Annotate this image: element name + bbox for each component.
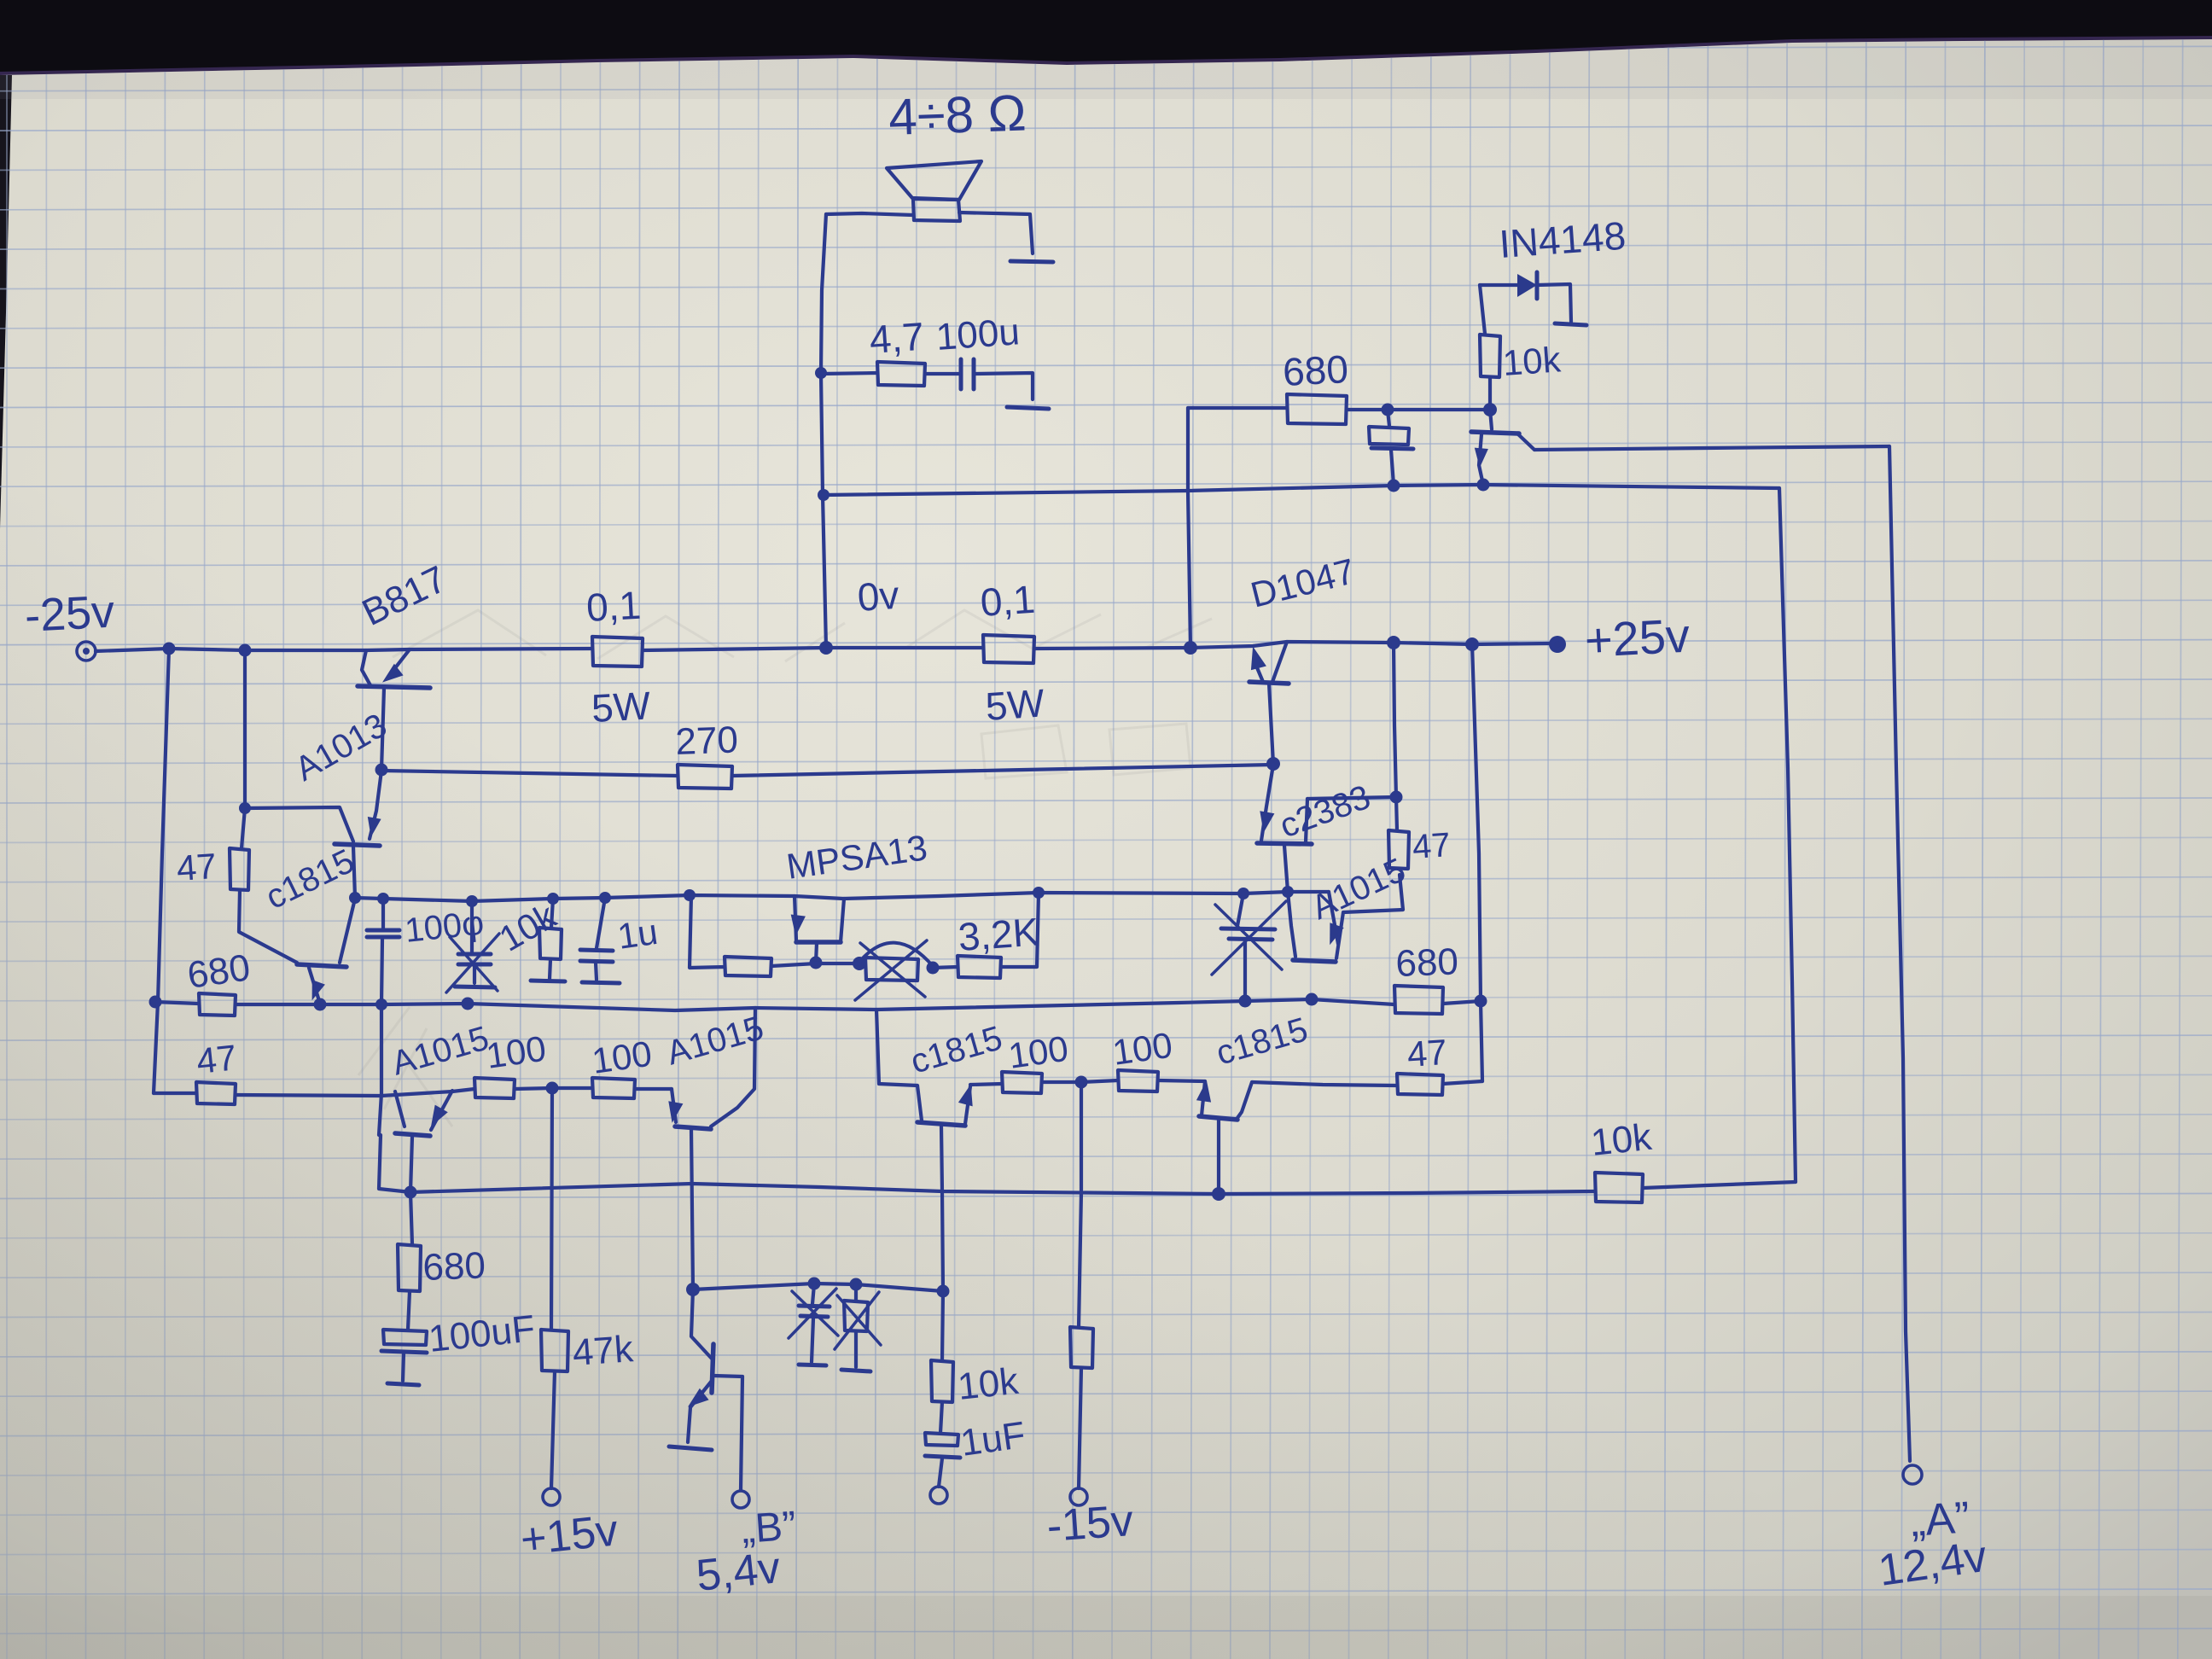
transistor c1815-3 bar <box>917 1122 965 1126</box>
node rail j3 (output) <box>819 641 833 655</box>
transistor c2383 emitter+arrow <box>1260 765 1274 841</box>
terminal 1uF <box>930 1487 947 1504</box>
transistor A1015R base lead <box>1288 892 1295 957</box>
text IN4148 <box>1498 213 1627 266</box>
terminal +25v <box>1549 636 1566 653</box>
wire 100 mid <box>515 1088 592 1089</box>
paper edge purple sheen <box>0 36 2212 80</box>
node VAS 270 left <box>375 764 388 777</box>
trimmer (crossed out) right <box>1212 894 1286 1001</box>
text B817 <box>356 558 453 634</box>
transistor MPSA13 lower lead <box>816 943 817 963</box>
ground 100uF <box>387 1383 419 1385</box>
node cap to feedback <box>1388 480 1400 492</box>
transistor TR-top collector <box>1517 434 1534 450</box>
transistor Vbe emitter+arrow <box>688 1381 712 1442</box>
svg-text:-25v: -25v <box>23 586 115 642</box>
text +15v <box>518 1505 620 1565</box>
node TR-top emitter <box>1477 479 1490 492</box>
node B row b <box>850 1278 863 1291</box>
node bias cap junction <box>375 998 387 1010</box>
wire 47 to c1815 base <box>239 890 297 963</box>
transistor c1815-4 emitter+arrow <box>1196 1080 1211 1115</box>
wire 680 to nodes <box>1347 408 1490 411</box>
text +25v <box>1583 608 1691 667</box>
wire collector to A terminal <box>1534 446 1889 450</box>
transistor MPSA13 base bar <box>796 940 841 945</box>
transistor A1015-1 bar <box>395 1133 430 1136</box>
wire 100 to c1815-4 <box>1158 1080 1205 1081</box>
text A1015 #1 <box>387 1019 492 1082</box>
resistor 47k <box>541 1328 635 1374</box>
node c1815-4 collector <box>1212 1187 1225 1201</box>
wire feedback 0v to right <box>824 485 1779 495</box>
text 12,4v <box>1876 1532 1990 1596</box>
transistor A1015R emitter+arrow <box>1329 892 1344 945</box>
node mb3 <box>466 895 478 907</box>
svg-text:680: 680 <box>1282 346 1349 394</box>
terminal -15v <box>1070 1488 1087 1505</box>
svg-text:47: 47 <box>195 1037 238 1081</box>
terminal +15v <box>543 1488 560 1505</box>
node bias c1815L emitter <box>314 998 327 1011</box>
svg-text:5W: 5W <box>591 683 652 731</box>
transistor A1013 emitter+arrow <box>368 771 381 839</box>
svg-text:0,1: 0,1 <box>585 583 643 630</box>
svg-text:10k: 10k <box>1589 1116 1655 1164</box>
transistor B817 lower lead <box>381 688 384 770</box>
svg-text:10k: 10k <box>1501 339 1563 383</box>
transistor A1015-2 emitter+arrow <box>668 1089 683 1123</box>
wire 270 row <box>381 771 678 776</box>
wire speaker left lead <box>826 213 913 215</box>
transistor c1815-4 base diag <box>1237 1082 1252 1118</box>
wire rail drop to node <box>1394 643 1396 797</box>
resistor 0,1 5W left <box>585 583 652 731</box>
resistor 47 (left vertical) <box>175 846 249 890</box>
transistor A1013 collector <box>353 847 355 898</box>
capacitor 100u (Zobel) <box>934 311 1021 389</box>
node mb4 <box>547 893 559 905</box>
wire 10k-B column <box>942 1291 943 1360</box>
node rail j2 <box>239 644 252 657</box>
transistor c1815-3 collector <box>941 1126 943 1291</box>
node bias right end <box>1475 995 1487 1008</box>
text A1015 #2 <box>662 1009 767 1072</box>
node trimmer right <box>927 962 940 975</box>
svg-text:5W: 5W <box>984 680 1046 729</box>
wire c2383 collector <box>1307 797 1396 799</box>
resistor 270 <box>675 719 739 789</box>
text A <box>1909 1493 1971 1546</box>
wire left col to 47 row <box>154 1002 158 1093</box>
resistor 680 (left) <box>185 946 253 1016</box>
svg-text:3,2K: 3,2K <box>957 909 1040 958</box>
transistor A1015-1 emitter+arrow <box>431 1091 452 1130</box>
wire cap to ground <box>403 1353 404 1381</box>
node D1047 base <box>1266 757 1280 771</box>
node B row c <box>937 1285 950 1298</box>
node mb7 <box>1033 887 1045 899</box>
resistor 100 (#1) <box>474 1028 549 1098</box>
text D1047 <box>1247 550 1359 615</box>
resistor 47 (right vertical) <box>1388 826 1452 869</box>
resistor 10k mid <box>531 899 565 981</box>
svg-text:680: 680 <box>185 946 253 997</box>
transistor c1815-3 base diag <box>917 1086 922 1121</box>
transistor MPSA13 collector <box>841 899 844 942</box>
node A1015-1 collector <box>405 1186 417 1199</box>
svg-text:47: 47 <box>1412 826 1452 866</box>
transistor A1013 base bar <box>335 844 380 846</box>
node mb6 <box>684 889 696 901</box>
transistor A1013 base lead <box>245 807 353 841</box>
wire 47v to rail node <box>1396 797 1397 830</box>
transistor D1047 collector lead <box>1272 642 1287 682</box>
wire zobel mid <box>925 372 961 375</box>
ground speaker return <box>1010 261 1053 262</box>
text c1815 left <box>260 842 360 917</box>
transistor D1047 emitter+arrow <box>1251 647 1266 683</box>
transistor A1015R collector <box>1336 875 1403 958</box>
wire -25v rail left <box>96 649 592 651</box>
wire 47 row left <box>236 1089 474 1096</box>
node rail j4 <box>1184 641 1197 655</box>
node mb9 <box>1282 886 1294 898</box>
resistor (crossed) B <box>835 1284 881 1371</box>
capacitor (top, box style) <box>1369 410 1413 485</box>
svg-text:4,7: 4,7 <box>868 314 925 362</box>
node c2383 collector <box>1390 791 1403 804</box>
wire 47row right a <box>970 1084 1002 1085</box>
text c1815 #3 <box>906 1019 1006 1080</box>
wire bottom rail <box>379 1135 1595 1194</box>
wire 680 leg <box>410 1192 412 1244</box>
text A1013 <box>289 707 393 789</box>
wire 680 row <box>1188 406 1287 410</box>
transistor A1015R base bar <box>1293 960 1336 962</box>
resistor 680 (top) <box>1282 346 1349 424</box>
wire middle band <box>355 892 1329 901</box>
node trimmer left <box>853 957 866 970</box>
resistor 100 (#3) <box>1002 1028 1071 1093</box>
svg-text:IN4148: IN4148 <box>1498 213 1627 266</box>
svg-text:47k: 47k <box>571 1328 635 1374</box>
wire 1uF to terminal <box>939 1458 942 1487</box>
wire loop mid <box>816 962 859 965</box>
node rail j1 <box>163 643 176 655</box>
resistor -15v series <box>1070 1327 1093 1368</box>
wire rail mid-right +25v <box>1034 642 1550 649</box>
svg-text:4÷8 Ω: 4÷8 Ω <box>888 84 1027 146</box>
resistor 47 (left row) <box>154 1037 238 1104</box>
resistor 4,7 (Zobel) <box>821 314 925 386</box>
text -15v <box>1045 1496 1135 1551</box>
wire 10k to node <box>1488 377 1492 410</box>
transistor D1047 base lead down <box>1269 684 1273 764</box>
trimmer (crossed out) mid-left <box>446 901 499 992</box>
wire 10k feedback row <box>1644 1182 1796 1188</box>
resistor 0,1 5W right <box>979 577 1046 729</box>
svg-text:0v: 0v <box>856 573 900 620</box>
node rail j5 <box>1387 636 1400 649</box>
wire 680 to cap <box>408 1291 410 1330</box>
node B row a <box>808 1278 821 1290</box>
text 10k mid <box>492 895 563 959</box>
svg-text:1uF: 1uF <box>958 1414 1028 1464</box>
transistor c1815-3 emitter+arrow <box>958 1085 973 1125</box>
wire -15v column <box>1079 1082 1081 1327</box>
ground zobel <box>1007 407 1049 409</box>
node output/zobel junction <box>815 367 827 379</box>
transistor D1047 base bar <box>1249 682 1289 684</box>
wire c1815-3 base corner <box>876 1010 917 1086</box>
ground Vbe emitter <box>669 1447 712 1450</box>
text 0v <box>856 573 900 620</box>
wire left column 2 <box>242 650 245 848</box>
transistor c1815L base bar <box>297 964 346 967</box>
svg-text:680: 680 <box>422 1244 486 1289</box>
node mpsa base loop left <box>810 957 823 969</box>
transistor c2383 base bar <box>1257 843 1312 844</box>
wire diode left <box>1480 283 1517 287</box>
wire 100 to A1015-2 <box>635 1087 672 1091</box>
text 5,4v <box>694 1543 783 1601</box>
text A1015 right <box>1306 851 1411 927</box>
transistor TR-top emitter+arrow <box>1475 434 1488 485</box>
svg-text:100u: 100u <box>934 311 1021 358</box>
node bias left end <box>149 996 162 1009</box>
wire cap column down <box>379 939 382 1135</box>
wire rail mid-left <box>643 648 983 650</box>
wire trimmer bypass arc <box>859 943 933 966</box>
wire 47row right b <box>1252 1082 1397 1086</box>
ground diode <box>1555 323 1586 325</box>
transistor B817 collector lead <box>362 650 370 685</box>
wire bias rail 3 <box>1443 1001 1481 1004</box>
svg-text:100: 100 <box>590 1033 655 1081</box>
transistor Vbe multiplier base <box>691 1289 712 1359</box>
wire mpsa loop corner <box>690 895 725 968</box>
node mb2 <box>377 893 389 905</box>
wire diode right to ground <box>1537 284 1571 322</box>
wire 47row right end <box>1443 1081 1482 1084</box>
transistor Vbe collector <box>713 1376 742 1490</box>
text -25v <box>23 586 115 642</box>
text B <box>740 1504 798 1552</box>
text c2383 <box>1275 778 1375 846</box>
wire diode to 10k <box>1480 285 1485 334</box>
wire inner right vertical <box>1779 488 1796 1182</box>
node 10k/base <box>1483 403 1497 416</box>
transistor c1815-4 collector <box>1217 1121 1220 1194</box>
wire to 3,2k <box>933 967 958 968</box>
wire outer right vertical <box>1889 446 1910 1461</box>
resistor 10k (feedback) <box>1589 1116 1655 1202</box>
wire B row <box>693 1284 943 1291</box>
transistor c2383 lower lead <box>1284 846 1288 892</box>
node feedback tap <box>818 489 829 501</box>
svg-text:47: 47 <box>175 846 218 888</box>
svg-text:1u: 1u <box>615 911 661 957</box>
node bias right 2 <box>1306 993 1318 1006</box>
transistor A1015-1 collector <box>410 1137 412 1192</box>
terminal A <box>1903 1465 1922 1484</box>
resistor 100 (#4) <box>1110 1025 1175 1091</box>
wire +15v column <box>551 1088 552 1330</box>
wire zobel to ground <box>974 373 1033 399</box>
svg-text:100: 100 <box>1110 1025 1175 1073</box>
node bias right 1 <box>1239 995 1252 1008</box>
wire speaker right lead <box>959 212 1033 253</box>
wire right column down <box>1472 644 1482 1081</box>
capacitor 100ϕ <box>367 899 486 950</box>
transistor TR-top base lead <box>1490 410 1492 429</box>
svg-text:5,4v: 5,4v <box>694 1543 783 1601</box>
resistor 680 (bottom) <box>398 1244 486 1291</box>
transistor B817 emitter+arrow <box>382 649 410 683</box>
resistor 10k (top right) <box>1480 335 1563 383</box>
wire 3,2k corner up <box>1001 893 1039 967</box>
transistor c1815L emitter+arrow <box>309 968 325 1004</box>
text MPSA13 <box>784 827 930 887</box>
node +15v column top <box>546 1082 559 1095</box>
node bias j3 <box>462 998 474 1010</box>
node 680/cap <box>1382 404 1394 416</box>
diode IN4148 <box>1517 272 1537 299</box>
capacitor 1uF <box>925 1414 1027 1464</box>
text c1815 #4 <box>1212 1010 1312 1072</box>
wire output column <box>821 214 826 648</box>
wire mpsa loop left <box>771 963 816 966</box>
terminal B <box>732 1491 749 1508</box>
resistor 47 (right row) <box>1397 1032 1448 1095</box>
trimmer (crossed out) VAS <box>855 940 927 1000</box>
terminal -25v <box>77 642 96 661</box>
node mb5 <box>599 892 611 904</box>
transistor Vbe bar <box>712 1344 713 1393</box>
transistor A1015-2 bar <box>675 1126 711 1129</box>
wire 100 mid right <box>1042 1080 1118 1082</box>
svg-text:10k: 10k <box>956 1360 1022 1408</box>
svg-text:-15v: -15v <box>1045 1496 1135 1551</box>
transistor c1815L collector <box>340 899 355 963</box>
transistor A1015-1 base diag <box>395 1091 405 1126</box>
resistor 680 (right) <box>1394 940 1459 1014</box>
svg-text:680: 680 <box>1395 940 1459 985</box>
wire left column 1 <box>158 649 169 1002</box>
node -15v column top <box>1075 1076 1088 1089</box>
transistor A1015-2 base lead <box>711 1008 755 1126</box>
wire +15v column b <box>551 1371 555 1488</box>
text speaker impedance 4÷8 Ω <box>888 84 1027 146</box>
wire bias rail <box>155 1002 199 1004</box>
transistor MPSA13 emitter+arrow <box>791 896 806 940</box>
node mb8 <box>1237 888 1249 899</box>
transistor B817 base bar <box>358 686 430 688</box>
wire 680 corner vertical <box>1188 408 1190 648</box>
svg-text:100: 100 <box>484 1028 549 1076</box>
resistor 3,2k <box>957 909 1040 978</box>
svg-text:270: 270 <box>675 719 739 763</box>
resistor base loop <box>725 957 771 976</box>
speaker LS1 <box>887 161 981 221</box>
left dark sliver of table visible <box>0 75 12 529</box>
transistor c2383 collector diag <box>1306 799 1307 842</box>
wire 270 row right <box>732 765 1273 776</box>
svg-text:0,1: 0,1 <box>979 577 1036 625</box>
wire 10k to 1uF <box>940 1402 942 1433</box>
resistor 10k (B) <box>931 1360 1022 1408</box>
node rail j6 <box>1465 637 1479 651</box>
node B row left <box>686 1283 700 1296</box>
transistor A1015-2 collector <box>691 1129 693 1289</box>
wire bias rail 2 <box>236 999 1394 1010</box>
transistor TR-top base bar <box>1471 432 1519 434</box>
node mb1 <box>349 892 361 904</box>
svg-text:100: 100 <box>1006 1028 1071 1076</box>
capacitor (crossed) B <box>789 1284 838 1365</box>
svg-text:+25v: +25v <box>1583 608 1691 667</box>
wire -15v column b <box>1079 1368 1081 1488</box>
capacitor 100uF <box>381 1307 537 1360</box>
capacitor 1u <box>580 898 661 983</box>
transistor c1815-4 bar <box>1199 1116 1237 1120</box>
svg-text:+15v: +15v <box>518 1505 620 1565</box>
resistor 100 (#2) <box>590 1033 655 1098</box>
node 47 top <box>239 802 251 814</box>
svg-text:47: 47 <box>1406 1032 1448 1074</box>
